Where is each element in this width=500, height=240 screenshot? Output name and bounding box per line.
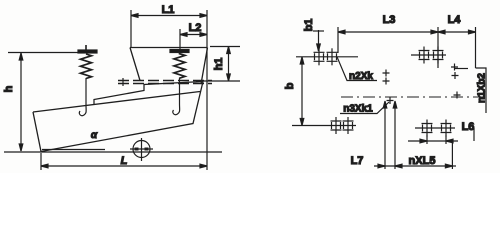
L arrow left xyxy=(41,164,48,168)
leader n3Xk1 xyxy=(340,102,389,114)
hole B2 xyxy=(343,117,354,134)
L6 arrow right xyxy=(446,139,453,143)
L4 arrow mid-right xyxy=(438,30,445,34)
dimension h1 line xyxy=(228,47,230,82)
h1 arrow top xyxy=(227,47,231,54)
plan top-left edge xyxy=(296,56,358,58)
left hanger rod xyxy=(85,78,87,105)
hopper flange dashed lines xyxy=(118,80,212,82)
svg-text:L4: L4 xyxy=(448,14,462,26)
L4 arrow right xyxy=(469,30,476,34)
hopper outline xyxy=(130,48,208,85)
dimension L line xyxy=(41,165,207,167)
nXL5 arrow left xyxy=(395,164,402,168)
L6 side extension xyxy=(473,128,475,141)
b1 top tick xyxy=(313,30,324,32)
center hook xyxy=(173,104,180,115)
vibrator crosshair xyxy=(130,138,153,161)
L3 left extension xyxy=(337,27,339,53)
corner dash xyxy=(455,68,468,70)
alpha reference line xyxy=(42,149,105,151)
L3/L4 arrow mid-left xyxy=(431,30,438,34)
hole A2 xyxy=(327,48,338,65)
L left extension xyxy=(40,153,42,170)
left hook xyxy=(79,105,86,116)
hole B1 xyxy=(331,117,342,134)
vibrator hub marks xyxy=(135,148,149,151)
trough body outline xyxy=(33,82,203,152)
h1 top tick xyxy=(210,46,240,48)
b arrow top xyxy=(300,57,304,64)
L7 vertical xyxy=(384,103,386,169)
ground line xyxy=(4,151,222,153)
nXL5 arrow right xyxy=(445,164,452,168)
dimension L7 nXL5 line xyxy=(374,165,456,167)
hole D2 xyxy=(441,120,452,137)
bottom-mid cluster line xyxy=(415,127,455,129)
dimension L2 arrow left xyxy=(180,33,187,37)
nXL5 right vertical xyxy=(451,143,453,169)
left spring bolt stub xyxy=(85,45,87,50)
svg-text:n2Xk: n2Xk xyxy=(349,71,373,82)
svg-text:nXL5: nXL5 xyxy=(409,155,436,167)
svg-text:b1: b1 xyxy=(303,19,315,32)
plus marks xyxy=(383,70,390,77)
nXL5 left vertical xyxy=(394,103,396,169)
dimension L2 arrow right xyxy=(200,33,207,37)
dimension L2 line xyxy=(180,34,207,36)
mid-top cluster line xyxy=(411,54,446,56)
dimension L6 line xyxy=(408,140,458,142)
svg-text:n1Xb2: n1Xb2 xyxy=(477,73,488,103)
plan centerline xyxy=(341,96,486,98)
L6 extensions xyxy=(427,136,446,145)
L3 arrow left xyxy=(338,30,345,34)
left spring xyxy=(81,54,92,79)
leader n2Xk xyxy=(337,57,377,81)
svg-text:L7: L7 xyxy=(351,155,364,167)
L arrow right xyxy=(200,164,207,168)
vibrator circle xyxy=(133,141,150,158)
svg-text:α: α xyxy=(91,130,98,141)
L1 left extension xyxy=(130,10,132,47)
plan top-right corner xyxy=(476,68,487,113)
dimension L1 arrow right xyxy=(200,14,207,18)
L7 arrow xyxy=(378,164,385,168)
b arrow bottom xyxy=(300,119,304,126)
L1/L right extension xyxy=(206,10,208,170)
dimension L3 L4 line xyxy=(338,31,476,33)
svg-text:L6: L6 xyxy=(462,121,475,133)
center spring top plate xyxy=(170,50,189,53)
svg-text:L: L xyxy=(121,155,128,167)
svg-text:L2: L2 xyxy=(189,22,202,34)
nXL5 vertical up arrow xyxy=(393,101,397,108)
L4 right extension xyxy=(475,27,477,68)
svg-text:L3: L3 xyxy=(383,14,396,26)
hole A1 xyxy=(314,48,325,65)
svg-text:h: h xyxy=(3,85,15,92)
trough deck step xyxy=(94,82,203,106)
dimension h arrow bottom xyxy=(19,144,23,151)
dimension b1 line xyxy=(318,30,320,51)
hole C2 xyxy=(433,47,444,64)
flange left vertical xyxy=(122,78,124,86)
dimension b line xyxy=(301,57,303,126)
plan bottom-left edge xyxy=(292,125,356,127)
h1 bottom tick xyxy=(196,80,240,82)
L3 right extension xyxy=(437,27,439,68)
dimension L1 line xyxy=(131,15,207,17)
L7 vertical up arrow xyxy=(383,101,387,108)
center spring xyxy=(174,53,185,79)
L6 arrow left xyxy=(420,139,427,143)
svg-text:n3Xk1: n3Xk1 xyxy=(343,104,373,115)
b1 arrow xyxy=(317,44,321,51)
plus at leader tip xyxy=(387,97,394,104)
dimension h arrow top xyxy=(19,53,23,60)
top reference line (left view) xyxy=(8,52,97,54)
h1 arrow bottom xyxy=(227,74,231,81)
svg-text:L1: L1 xyxy=(162,4,175,16)
center hanger rod xyxy=(179,78,181,105)
hole C1 xyxy=(419,47,430,64)
dimension h line xyxy=(20,53,22,151)
svg-text:b: b xyxy=(284,82,296,89)
dimension L1 arrow left xyxy=(131,14,138,18)
left spring top plate xyxy=(78,50,97,53)
svg-text:h1: h1 xyxy=(213,58,225,71)
hole D1 xyxy=(422,120,433,137)
L2 left extension xyxy=(179,29,181,49)
